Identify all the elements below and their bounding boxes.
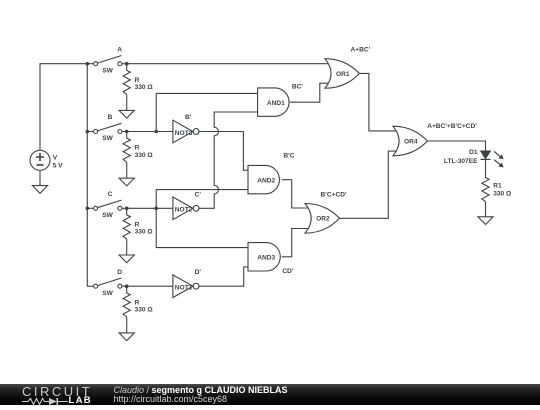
wire node B' from NOT3 to AND2 upper input <box>199 132 250 171</box>
svg-text:330 Ω: 330 Ω <box>493 191 512 198</box>
svg-text:CD': CD' <box>282 268 294 275</box>
CircuitLab logo schematic strip (resistor + diode) <box>21 397 91 406</box>
wire bus stub to switch B <box>87 131 93 133</box>
svg-text:LTL-307EE: LTL-307EE <box>444 158 478 165</box>
junction switch D / resistor <box>125 284 129 288</box>
svg-text:OR4: OR4 <box>404 138 418 145</box>
svg-text:B': B' <box>185 114 192 121</box>
svg-text:AND2: AND2 <box>257 177 275 184</box>
junction bus / switch B <box>86 130 90 134</box>
resistor R1 330 <box>482 159 489 201</box>
svg-text:B'C+CD': B'C+CD' <box>321 192 347 199</box>
LED D1 LTL-307EE <box>480 151 503 168</box>
svg-text:D: D <box>117 269 122 276</box>
svg-text:V: V <box>53 154 58 161</box>
svg-text:BC': BC' <box>292 83 304 90</box>
voltage source V 5V <box>30 150 50 170</box>
resistor R 330 (row B) <box>123 132 130 163</box>
wire node B to NOT3 input <box>122 131 174 133</box>
and-gate AND2 <box>248 165 279 193</box>
svg-text:D1: D1 <box>469 149 478 156</box>
svg-text:330 Ω: 330 Ω <box>135 307 154 314</box>
wire node C down to AND3 upper input <box>156 208 250 247</box>
resistor R 330 (row A) <box>123 64 130 95</box>
wire node B up to AND1 upper input <box>156 93 259 131</box>
wire OR1 output A+BC' to OR4 upper input <box>359 73 398 130</box>
svg-text:R: R <box>135 77 140 84</box>
svg-text:R: R <box>135 299 140 306</box>
svg-text:D': D' <box>195 269 202 276</box>
switch SW (A) <box>94 56 122 66</box>
svg-text:330 Ω: 330 Ω <box>135 152 154 159</box>
or-gate OR2 <box>305 204 340 234</box>
inverter NOT2 (C') <box>173 197 199 220</box>
wire OR2 output B'C+CD' to OR4 lower input <box>340 151 399 218</box>
svg-text:R: R <box>135 145 140 152</box>
wire AND1 output BC' to OR1 lower input <box>290 83 332 102</box>
svg-text:5 V: 5 V <box>53 162 63 169</box>
svg-text:B'C: B'C <box>283 153 294 160</box>
wire node C to NOT2 input <box>122 207 174 209</box>
wire vertical supply bus to switch D <box>87 64 93 287</box>
ground (row B) <box>126 162 128 178</box>
svg-text:NOT3: NOT3 <box>175 130 193 137</box>
svg-text:AND1: AND1 <box>267 100 285 107</box>
junction node B fanout <box>154 130 158 134</box>
wire bus stub to switch C <box>87 207 93 209</box>
junction node A at bus <box>86 62 90 66</box>
ground below source V <box>39 170 41 185</box>
svg-text:NOT1: NOT1 <box>175 285 193 292</box>
ground (row A) <box>126 95 128 111</box>
resistor R 330 (row D) <box>123 286 130 317</box>
wire node D to NOT1 input <box>122 285 174 287</box>
switch SW (D) <box>94 278 122 288</box>
ground (row C) <box>126 239 128 255</box>
ground below R1 <box>485 202 487 217</box>
svg-text:SW: SW <box>102 212 113 219</box>
svg-text:330 Ω: 330 Ω <box>135 229 154 236</box>
wire AND3 output CD' to OR2 lower input <box>282 229 310 257</box>
svg-text:OR2: OR2 <box>316 216 330 223</box>
svg-text:330 Ω: 330 Ω <box>135 84 154 91</box>
svg-text:R1: R1 <box>493 183 502 190</box>
svg-text:AND3: AND3 <box>257 255 275 262</box>
ground (row D) <box>126 317 128 333</box>
footer bar <box>0 384 540 405</box>
wire node C' from NOT2 up to AND1 lower input (with hops) <box>199 112 259 208</box>
wire node D' from NOT1 to AND3 lower input <box>199 267 250 286</box>
wire node C up to AND2 lower input <box>156 190 250 209</box>
svg-text:NOT2: NOT2 <box>175 207 193 214</box>
junction switch B / resistor <box>125 130 129 134</box>
svg-text:SW: SW <box>102 290 113 297</box>
svg-text:SW: SW <box>102 135 113 142</box>
svg-text:A+BC': A+BC' <box>351 46 371 53</box>
or-gate OR1 <box>325 59 360 88</box>
svg-text:B: B <box>108 114 113 121</box>
inverter NOT1 (D') <box>173 275 199 298</box>
svg-text:SW: SW <box>102 67 113 74</box>
switch SW (B) <box>94 123 122 133</box>
CircuitLab logo wordmark CIRCUIT <box>22 385 92 398</box>
junction bus / switch C <box>86 207 90 211</box>
svg-text:A: A <box>117 46 122 53</box>
svg-text:R: R <box>135 222 140 229</box>
junction node C fanout <box>154 207 158 211</box>
junction switch A / resistor <box>125 62 129 66</box>
svg-text:C: C <box>108 191 113 198</box>
svg-text:OR1: OR1 <box>336 71 350 78</box>
resistor R 330 (row C) <box>123 208 130 239</box>
and-gate AND1 <box>258 88 289 116</box>
wire AND2 output B'C to OR2 upper input <box>282 180 310 208</box>
wire node A to OR1 upper input <box>122 63 332 65</box>
footer credit line <box>114 386 288 396</box>
wire OR4 output to LED D1 anode <box>427 141 486 151</box>
or-gate OR4 <box>393 126 428 156</box>
inverter NOT3 (B') <box>173 120 199 143</box>
svg-text:A+BC'+B'C+CD': A+BC'+B'C+CD' <box>427 123 477 130</box>
CircuitLab logo wordmark LAB <box>69 396 92 406</box>
footer url <box>114 395 228 405</box>
switch SW (C) <box>94 200 122 210</box>
junction switch C / resistor <box>125 207 129 211</box>
and-gate AND3 <box>248 243 280 271</box>
svg-text:C': C' <box>195 191 202 198</box>
wire from source V to switch A <box>40 64 94 150</box>
